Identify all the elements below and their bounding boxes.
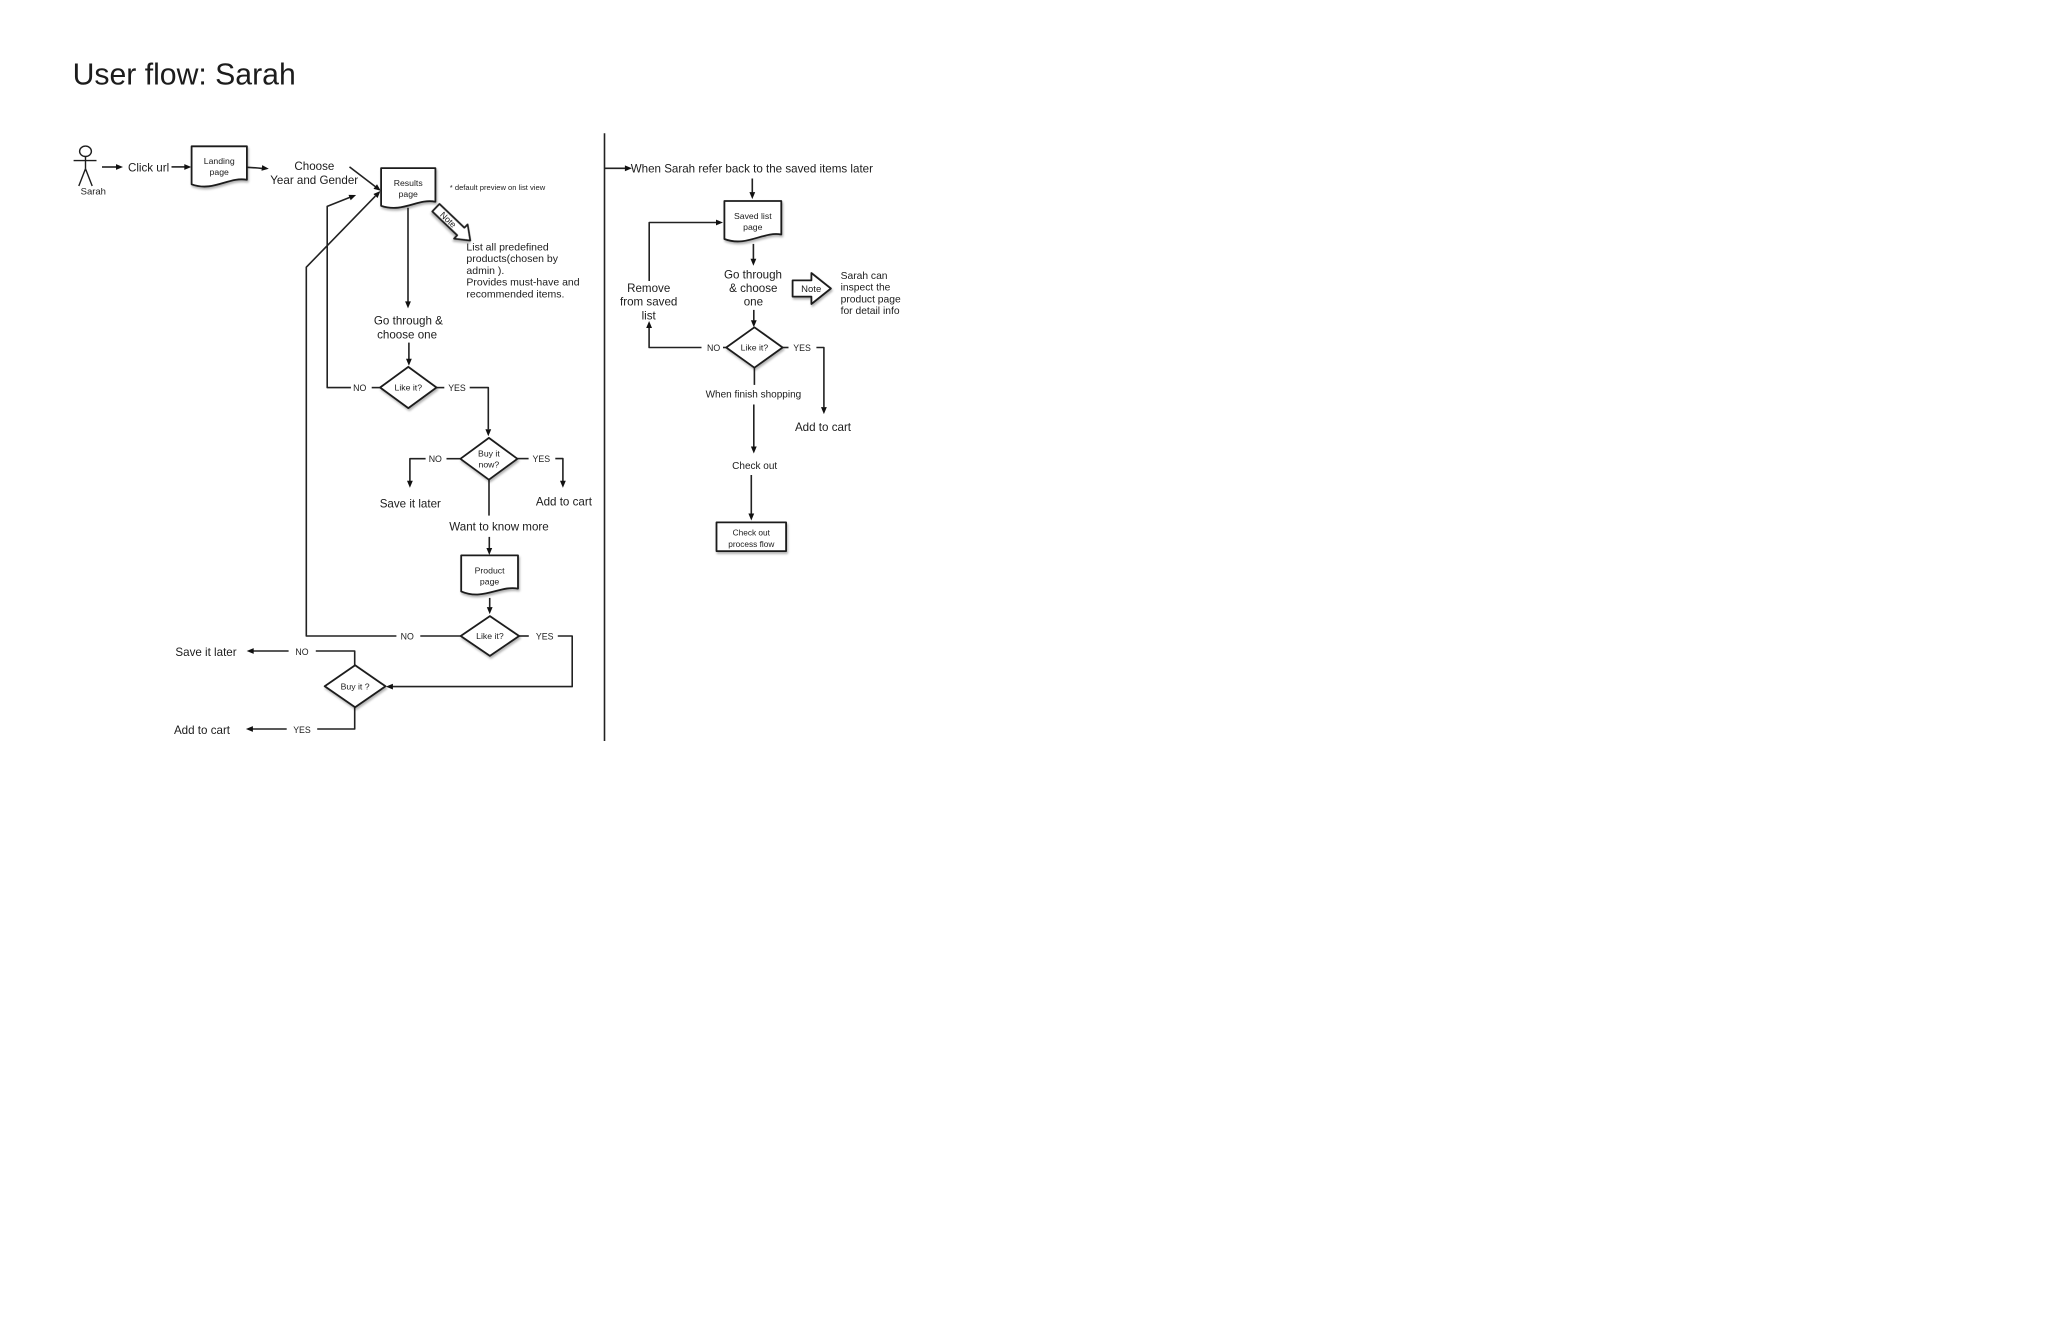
svg-text:Landing: Landing — [204, 156, 235, 166]
svg-text:product page: product page — [841, 294, 901, 305]
svg-text:Buy it ?: Buy it ? — [341, 681, 370, 691]
svg-text:Add to cart: Add to cart — [174, 724, 231, 737]
svg-text:Results: Results — [394, 178, 424, 188]
svg-text:inspect the: inspect the — [841, 283, 891, 294]
svg-text:Check out: Check out — [733, 527, 771, 537]
svg-text:page: page — [743, 222, 762, 232]
svg-text:NO: NO — [353, 383, 366, 393]
svg-text:recommended items.: recommended items. — [466, 288, 564, 300]
svg-text:List all predefined: List all predefined — [466, 242, 548, 254]
svg-text:Remove: Remove — [627, 282, 670, 295]
svg-text:YES: YES — [448, 383, 466, 393]
svg-text:Click url: Click url — [128, 161, 169, 174]
svg-text:Like it?: Like it? — [395, 383, 423, 393]
svg-text:Add to cart: Add to cart — [795, 421, 852, 434]
svg-text:Choose: Choose — [294, 160, 334, 173]
svg-text:Like it?: Like it? — [476, 631, 504, 641]
svg-text:NO: NO — [401, 631, 414, 641]
svg-text:now?: now? — [479, 459, 500, 469]
svg-text:YES: YES — [793, 343, 811, 353]
svg-text:Note: Note — [801, 284, 821, 295]
svg-text:Sarah can: Sarah can — [841, 271, 888, 282]
svg-text:YES: YES — [293, 725, 311, 735]
svg-text:choose one: choose one — [377, 329, 437, 342]
svg-text:Check out: Check out — [732, 461, 777, 472]
svg-text:User flow: Sarah: User flow: Sarah — [73, 59, 296, 92]
svg-text:Buy it: Buy it — [478, 448, 500, 458]
svg-text:one: one — [744, 295, 763, 308]
svg-text:Sarah: Sarah — [81, 186, 106, 197]
svg-text:When Sarah refer back to the s: When Sarah refer back to the saved items… — [631, 163, 873, 176]
svg-text:NO: NO — [429, 454, 442, 464]
svg-text:page: page — [210, 167, 229, 177]
svg-text:Like it?: Like it? — [741, 343, 769, 353]
svg-text:for detail info: for detail info — [841, 306, 900, 317]
svg-text:Want to know more: Want to know more — [449, 520, 548, 533]
svg-text:When finish shopping: When finish shopping — [706, 390, 802, 401]
svg-text:Go through: Go through — [724, 269, 782, 282]
svg-text:* default preview on list view: * default preview on list view — [450, 183, 546, 192]
svg-text:NO: NO — [707, 343, 720, 353]
svg-text:list: list — [642, 309, 657, 322]
svg-text:page: page — [480, 577, 499, 587]
svg-text:YES: YES — [536, 631, 554, 641]
svg-text:admin ).: admin ). — [466, 265, 504, 277]
svg-text:process flow: process flow — [728, 539, 775, 549]
svg-text:YES: YES — [532, 454, 550, 464]
svg-text:& choose: & choose — [729, 282, 777, 295]
svg-text:Go through &: Go through & — [374, 315, 443, 328]
svg-text:NO: NO — [295, 647, 308, 657]
svg-text:Provides must-have and: Provides must-have and — [466, 277, 579, 289]
svg-text:Product: Product — [475, 565, 506, 575]
svg-text:from saved: from saved — [620, 296, 677, 309]
svg-text:page: page — [399, 189, 418, 199]
svg-text:Add to cart: Add to cart — [536, 495, 593, 508]
svg-text:Saved list: Saved list — [734, 211, 772, 221]
svg-text:Save it later: Save it later — [175, 646, 236, 659]
svg-text:Save it later: Save it later — [380, 497, 441, 510]
svg-text:Year and Gender: Year and Gender — [270, 174, 358, 187]
svg-text:products(chosen by: products(chosen by — [466, 253, 558, 265]
